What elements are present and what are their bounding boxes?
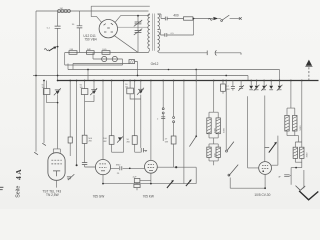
diode stack x251.2 [250,81,252,86]
svg-text:SM2: SM2 [116,165,121,167]
wire drop x111.6 [111,81,113,136]
capacitor trimmer C4 [135,31,142,33]
wire heater chain rail [65,52,149,54]
svg-text:10/5 CV-30: 10/5 CV-30 [254,193,270,197]
indicator arrow up right [306,60,312,66]
diode stack x256.6 [256,81,258,86]
wire U1 pin top-right [115,16,149,23]
wire primary bottom link [149,49,150,52]
diode stack x264.1 [263,81,265,86]
svg-text:765 GW: 765 GW [93,195,105,199]
capacitor C12 [141,148,143,152]
diode arrow mid [118,137,122,140]
wire x196 from rail to switch [195,70,197,137]
wire rail y69.5 [68,64,280,81]
resistor fuse choke on top rail [58,9,61,12]
wire V4 top pin [264,96,266,162]
svg-text:400: 400 [173,13,179,17]
wire U1 pin right [117,26,148,28]
wire drop x79.5 [79,11,81,26]
junction dots on bus [57,80,59,82]
wire secondary tap [158,30,165,35]
wire top antenna rail [36,10,149,12]
resistor R1 [69,51,77,55]
wire detector line [291,167,302,169]
wire drop x173.6 with switch contacts [173,81,175,137]
wire C6 to corner [167,19,194,36]
wire [141,148,147,151]
diode stack x279.6 [279,81,281,86]
wire V3-V4 coupling line [157,167,196,183]
wire from V4 grid left [248,96,259,168]
tube V4 internals [262,165,269,168]
dial lamp 2 [112,56,117,61]
squiggle near antenna arrow [44,49,48,51]
tube V1 internals [51,160,61,164]
svg-text:25: 25 [117,173,120,175]
wire drop x163.2 with switch contacts [162,81,164,142]
wire pair1 left drop [46,81,48,89]
trimmer arrow near V4 [269,144,276,153]
capacitor C2 [77,26,83,28]
switch S2 [195,135,197,137]
wire pair2 bottom [85,95,94,102]
coil IFT1 winding D [216,147,220,157]
wire x226 drop [225,81,227,151]
wire IFT2 top stem [287,81,295,116]
coil IFT2 winding B [293,115,297,131]
svg-text:100: 100 [103,138,107,140]
wire rail y75.5 [33,76,248,81]
capacitor C13 beside V1 [67,177,71,179]
wire U1 pin top-left [91,17,102,23]
capacitor row x241.1 [240,81,242,87]
wire drop x183.9 [183,81,185,184]
tube V1 output [48,153,65,181]
wire drop x70.2 [69,81,71,157]
resistor R13 on x70.2 [68,137,72,143]
wire antenna drop x57.6 [57,11,59,26]
terminal tick [240,53,242,55]
wire bracket [112,151,124,153]
transformer T1 core [153,14,155,51]
ground chevron large [299,191,318,200]
capacitor C7 coupling [206,51,208,56]
wire pair3 bottom [130,94,141,99]
wire to ground chevron 1 [290,168,292,185]
wire IFT2 bottom bracket [295,158,302,167]
resistor R7 [127,88,134,94]
wire IFT1 middle brackets [209,134,218,147]
capacitor C5 [165,17,167,21]
resistor R5 [43,89,50,95]
wire below C1 [57,28,59,80]
antenna input arrow [49,47,55,51]
svg-text:4W: 4W [88,141,92,143]
wire to V2 left pin [85,165,96,168]
resistor R15 [134,184,140,187]
wire IFT1 bottom bracket [209,157,218,165]
wire trimmer column [137,16,139,53]
coil small hatched box [129,60,135,64]
tube V3 internals [148,164,155,167]
wire vertical x88 [87,70,89,81]
wire stub from coil [135,62,138,76]
wire cathode line y183.6 [103,183,196,185]
wire drop x76.6 [76,81,78,166]
wire [230,18,240,20]
wire [140,81,142,90]
resistor R9 vertical [109,136,114,145]
svg-text:B4F: B4F [87,49,92,51]
wire box top [91,6,150,16]
coil IFT1 winding A [207,118,211,134]
svg-text:4W: 4W [126,142,130,144]
wire [218,18,221,20]
potentiometer arrow P2 [186,181,191,187]
diode stack x271.2 [270,81,272,86]
svg-text:5000: 5000 [224,127,226,133]
transformer T1 primary winding [148,14,150,49]
terminal cross [239,17,242,20]
wire anode rail y18.5 [161,18,213,20]
wire V1 bottom pin [56,180,58,187]
squiggle [208,18,212,20]
tube V3 [145,160,158,173]
wire drop x123.6 [123,81,125,153]
svg-text:2T: 2T [165,139,168,141]
svg-text:0,1: 0,1 [47,28,51,30]
resistor R10 vertical [132,136,137,145]
junction [193,18,195,20]
resistor R6 [81,89,88,95]
wire chain left corner [65,53,123,66]
diode arrow on anode rail [213,17,218,20]
wire x44 drop [43,81,45,144]
junction dark dot [175,166,177,168]
wire drop x134.7 [134,81,136,136]
wire IFT1 top stem [209,81,218,118]
svg-text:5W: 5W [165,141,169,143]
svg-text:500: 500 [88,138,92,140]
dial lamp line [93,58,123,60]
svg-text:10: 10 [126,139,129,141]
wire V2 bottom pin [102,175,104,184]
page edge mark [0,187,3,188]
wire pair3 left drop [129,81,131,89]
wire V4 right pin to IFT2 [271,136,278,166]
wire below C2 [79,28,81,53]
tube V2 [95,160,110,175]
svg-text:3Ω: 3Ω [42,87,45,89]
svg-text:Ge12: Ge12 [151,62,159,66]
coil IFT2 winding D [300,147,304,158]
capacitor C11 grid [82,163,87,165]
svg-text:3Ω: 3Ω [125,87,128,89]
wire pair2 drop continues [84,102,86,136]
wire primary top link [149,14,150,16]
dial lamp 1 [102,56,107,61]
main ground bus [58,80,319,82]
junction [137,15,139,17]
switch S1 [221,20,223,22]
wire left vertical rail [35,11,37,75]
rectifier tube U1 [99,20,117,38]
resistor R8 vertical [82,135,87,143]
resistor R11 vertical [171,136,176,144]
wire drop x103 to V2 [102,81,104,160]
potentiometer arrow P1 [167,181,173,188]
svg-text:4 A: 4 A [14,169,23,180]
wire secondary top to anode rail [158,14,162,19]
wire drop x150.9 to V3 [150,81,152,161]
coil IFT2 winding A [285,115,289,131]
resistor R2 [87,51,95,55]
svg-text:TN 2,5W: TN 2,5W [46,193,59,197]
wire coupling line y52.8 [159,52,241,54]
capacitor trimmer C3 [135,22,142,24]
coil IFT1 winding B [216,118,220,134]
resistor R14 below left of V3 [134,179,140,183]
capacitor C10 electrolytic [138,88,144,90]
wire secondary bottom to coupling line [158,51,160,53]
switch S4 [229,165,239,176]
junction dots on rails [35,75,37,77]
svg-text:5T: 5T [145,151,148,153]
wire pair3 drop continues [140,99,142,148]
svg-text:4W: 4W [226,89,230,91]
svg-text:4W: 4W [103,141,107,143]
wire U1 pin bottom diagonal [114,35,138,52]
capacitor C1 [55,26,61,28]
coil IFT1 winding C [207,147,211,157]
wire V2 to V3 grid [111,167,145,169]
capacitor C9 electrolytic [91,89,97,91]
svg-text:4F: 4F [278,177,281,179]
wire V1 top pins [53,149,60,153]
switch S3 [226,150,228,152]
capacitor C6 [165,33,167,37]
tube U1 internal electrodes [104,23,113,32]
svg-text:5T: 5T [226,86,229,88]
terminal tick end of left rail [34,152,38,155]
svg-text:705 KW: 705 KW [143,195,154,199]
svg-text:5000: 5000 [214,127,216,133]
capacitor C14 [284,175,289,177]
capacitor small on x163 [161,117,165,119]
svg-text:30: 30 [72,24,75,26]
transformer T1 secondary lower [158,32,160,52]
svg-text:1M: 1M [60,8,63,10]
svg-text:2: 2 [157,119,159,121]
wire V3 bottom pin [150,173,152,183]
wire V4 cathode bottom line [230,178,265,189]
wire V4 bottom pin [264,174,266,188]
wire stub [303,170,305,188]
tube V2 internals [99,164,107,167]
tube V4 [259,162,272,175]
svg-text:3Ω: 3Ω [80,87,83,89]
capacitor C15 interstage [120,166,122,170]
wire R8 to grid cap [84,143,86,162]
svg-text:Seite: Seite [16,186,22,198]
resistor R12 right row [221,84,226,91]
coil IFT2 winding C [293,147,297,158]
svg-text:750 VB4: 750 VB4 [84,38,96,42]
terminal tick x44 [42,143,46,145]
wire pair1 bottom [47,95,58,103]
wire [93,81,95,90]
resistor R4 [184,17,193,20]
svg-text:2µF: 2µF [133,177,137,179]
capacitor row x232.9 [232,81,234,87]
wire x57.6 down to tube V1 [57,94,59,149]
wire pair2 left drop [84,81,86,89]
wire R14-R15 links [137,181,151,191]
wire bus drop to IFT2 lower [301,81,303,148]
wire staircase segment [73,64,129,70]
ground chevron small [296,186,306,191]
wire IFT2 middle bracket [287,131,302,147]
svg-text:3000: 3000 [306,152,308,158]
wire left rail lower continuation [35,76,37,152]
transformer T1 secondary upper [158,14,160,30]
resistor R3 [102,51,110,55]
capacitor C8 electrolytic [55,89,61,91]
